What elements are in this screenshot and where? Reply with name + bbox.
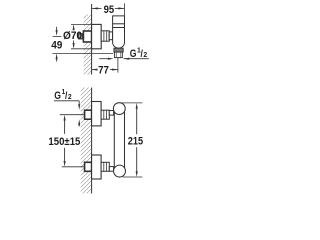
bottom connector [109,167,113,172]
svg-text:Ø70: Ø70 [63,30,82,42]
svg-text:2: 2 [68,93,72,101]
svg-text:215: 215 [128,136,143,148]
bottom union nut [101,162,109,171]
svg-text:2: 2 [143,52,147,60]
dim 95 [124,3,126,16]
dim 49 [56,27,58,31]
outlet nipple G1/2 [115,52,123,58]
svg-text:150±15: 150±15 [48,136,80,148]
valve body cylinder [113,16,125,48]
bottom concealed union [85,162,92,171]
G1/2 callout (top view) [99,58,109,60]
bottom knob circle [114,165,126,177]
dim 150+-15 [64,115,66,121]
outlet collar [114,48,123,52]
svg-text:49: 49 [51,40,62,52]
150 dim ext lines [60,114,85,116]
body tube [113,109,115,172]
svg-text:77: 77 [98,64,109,76]
outlet centerline [52,52,113,54]
concealed union in wall [83,31,91,42]
svg-text:G: G [130,48,137,60]
top connector [109,111,113,116]
dim 77 [117,58,119,73]
top knob circle [113,103,125,115]
connector [109,32,112,40]
wall line (top view) [91,4,93,75]
wall line (bottom view) [91,88,93,194]
dim 215 [120,102,142,104]
top escutcheon [92,102,102,126]
escutcheon (side view) [92,24,102,48]
union nut [101,31,109,41]
svg-text:95: 95 [104,4,115,16]
G1/2 label (bottom view) [54,89,72,102]
top concealed union [85,110,92,119]
top union nut [101,110,109,119]
dim diameter 70 [71,23,92,25]
union pipe stub [79,34,83,39]
bottom escutcheon [92,155,102,179]
